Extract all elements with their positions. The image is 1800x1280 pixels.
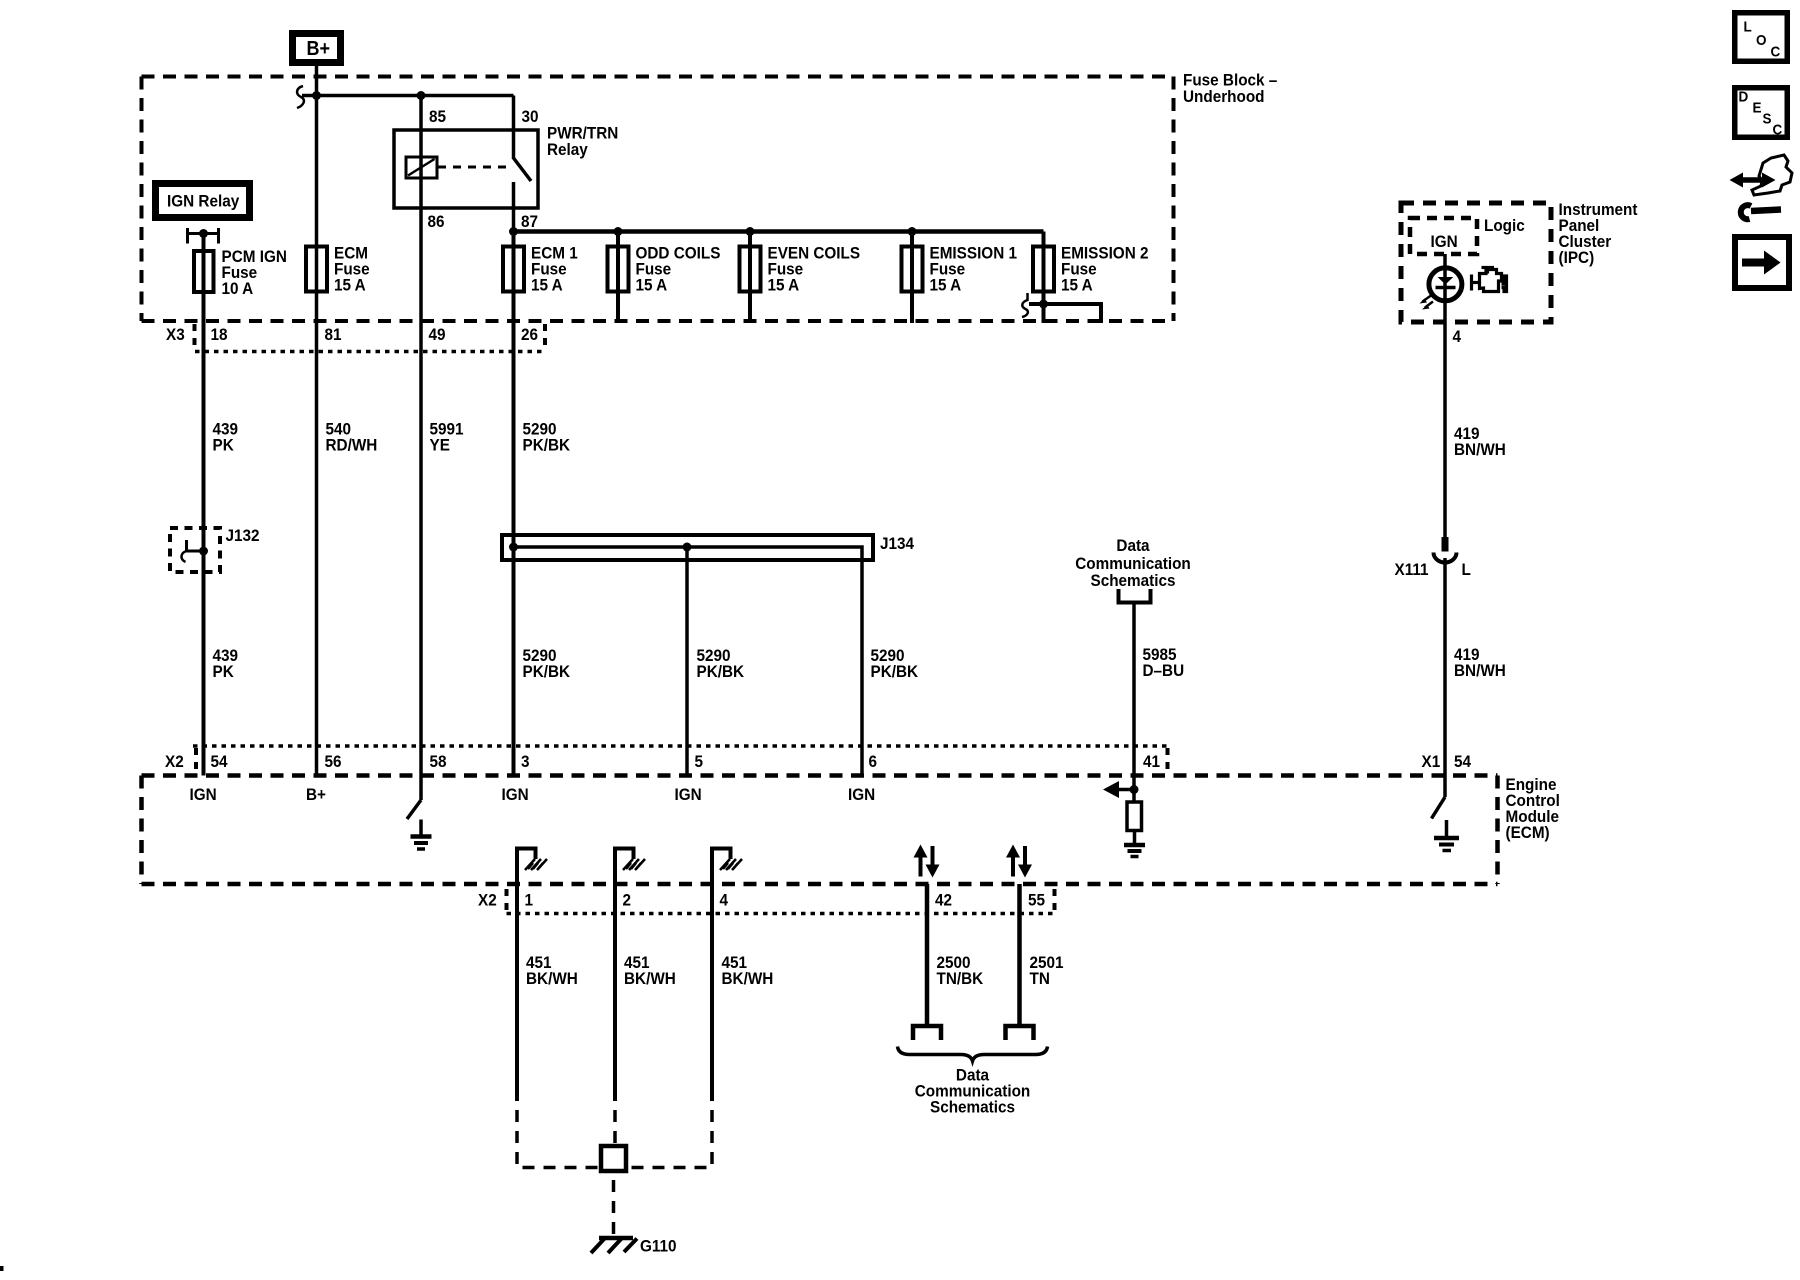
fuse F3 ECM 1 15A — [503, 247, 524, 292]
svg-text:54: 54 — [1454, 752, 1471, 771]
IGN Relay label box — [152, 180, 253, 221]
wire bus to relay pin 30 — [302, 94, 514, 98]
Instrument Panel Cluster dashed enclosure — [1401, 203, 1551, 322]
svg-text:55: 55 — [1028, 891, 1045, 910]
svg-text:42: 42 — [935, 891, 952, 910]
wire label 439 PK lower — [213, 646, 239, 681]
inline connector X111 — [1442, 537, 1449, 552]
wire label 5991 YE — [430, 420, 464, 455]
svg-text:1: 1 — [525, 891, 534, 910]
svg-text:X2: X2 — [478, 891, 497, 910]
wire 419 BN/WH run from IPC — [1443, 254, 1447, 537]
fuse F7 EMISSION 2 15A — [1033, 247, 1054, 292]
ground G110 — [599, 1236, 633, 1241]
svg-text:30: 30 — [522, 107, 539, 126]
wire J134 to ECM pin 5 — [685, 547, 689, 776]
connector X3 body dotted line — [195, 350, 545, 354]
splice junction block to G110 — [601, 1146, 626, 1171]
svg-text:6: 6 — [869, 752, 878, 771]
svg-text:YE: YE — [430, 436, 451, 455]
wire 2501 TN pin 55 — [1017, 884, 1022, 1026]
node J134 input — [509, 543, 518, 552]
node at IGN relay bracket — [199, 229, 208, 238]
off-page bracket pin 42 — [913, 1026, 941, 1040]
relay actuation dashed link — [438, 166, 507, 169]
node splice J132 — [199, 547, 208, 556]
wire label 451 BK/WH pin1 — [526, 953, 578, 988]
splice J132 clip symbol — [185, 540, 188, 551]
indicator LED D1 — [1429, 268, 1462, 301]
svg-text:BN/WH: BN/WH — [1454, 661, 1506, 680]
svg-text:J132: J132 — [226, 526, 260, 545]
svg-text:15 A: 15 A — [1061, 276, 1093, 295]
svg-text:B+: B+ — [306, 785, 326, 804]
svg-text:C: C — [1773, 122, 1783, 139]
wire label 5290 PK/BK pin6 — [871, 646, 919, 681]
splice J132 dashed box — [170, 528, 220, 572]
Engine Control Module dashed enclosure — [142, 776, 1498, 885]
page speck — [0, 1266, 4, 1271]
wire 5985 D-BU run — [1132, 605, 1136, 803]
wire ECM1 fuse run / 5290 PK/BK — [512, 232, 516, 776]
svg-text:(IPC): (IPC) — [1559, 248, 1595, 267]
ECM internal switch to ground for X1-54 — [1432, 797, 1446, 819]
svg-text:41: 41 — [1143, 752, 1160, 771]
wire label 2500 TN/BK — [937, 953, 984, 988]
relay switch pin 30 stub — [512, 96, 516, 160]
sidebar icon wrench — [1741, 205, 1751, 219]
svg-text:86: 86 — [428, 212, 445, 231]
wire 419 below X111 — [1443, 558, 1447, 797]
svg-text:X1: X1 — [1422, 752, 1441, 771]
svg-text:D–BU: D–BU — [1143, 661, 1185, 680]
svg-text:BK/WH: BK/WH — [624, 969, 676, 988]
label Data Communication Schematics upper — [1075, 536, 1190, 590]
svg-text:15 A: 15 A — [930, 276, 962, 295]
svg-text:TN/BK: TN/BK — [937, 969, 984, 988]
wire EMISSION 2 drop — [1042, 232, 1046, 324]
svg-text:4: 4 — [720, 891, 729, 910]
svg-text:2: 2 — [623, 891, 632, 910]
wire label 5290 PK/BK upper — [523, 420, 571, 455]
svg-text:B+: B+ — [307, 38, 331, 60]
node junction pin 85 tap — [417, 91, 426, 100]
svg-text:81: 81 — [325, 325, 342, 344]
svg-text:15 A: 15 A — [334, 276, 366, 295]
svg-text:IGN: IGN — [675, 785, 702, 804]
wire EVEN COILS stub — [748, 232, 752, 324]
sidebar icon LOC — [1732, 10, 1790, 64]
node J134 tap pin 5 — [683, 543, 692, 552]
wire label 540 RD/WH — [326, 420, 378, 455]
svg-text:C: C — [1771, 44, 1781, 61]
relay name label — [547, 124, 618, 159]
svg-text:58: 58 — [430, 752, 447, 771]
svg-text:3: 3 — [521, 752, 530, 771]
wire 451 BK/WH pin 2 — [613, 884, 617, 1101]
svg-text:X111: X111 — [1395, 560, 1429, 579]
svg-text:L: L — [1744, 19, 1753, 36]
relay coil — [406, 157, 437, 178]
svg-text:PK/BK: PK/BK — [871, 662, 919, 681]
connector X2 lower dotted body — [507, 912, 1056, 916]
label Engine Control Module (ECM) — [1506, 775, 1560, 842]
wire ODD COILS stub — [616, 232, 620, 324]
svg-text:PK: PK — [213, 662, 235, 681]
svg-text:Schematics: Schematics — [1091, 571, 1176, 590]
svg-text:BN/WH: BN/WH — [1454, 440, 1506, 459]
wire label 2501 TN — [1030, 953, 1064, 988]
wire label 419 BN/WH lower — [1454, 645, 1506, 680]
wire label 5985 D-BU — [1143, 645, 1185, 680]
ground for pin 41 — [1133, 831, 1137, 846]
ECM data arrows pin 42 — [919, 854, 923, 877]
connector X2 upper dotted body — [193, 744, 1168, 748]
node bus at ODD COILS — [614, 227, 623, 236]
IGN relay output bracket connector — [186, 232, 220, 235]
svg-text:26: 26 — [521, 325, 538, 344]
svg-text:Relay: Relay — [547, 140, 588, 159]
node bus at ECM1 — [509, 227, 518, 236]
svg-text:56: 56 — [325, 752, 342, 771]
fuse F5 EVEN COILS 15A — [740, 247, 761, 292]
svg-text:Data: Data — [1116, 536, 1150, 555]
connector X2 lower end ticks — [505, 889, 509, 910]
svg-text:87: 87 — [521, 212, 538, 231]
wire relay pin 85 / 5991 YE run — [419, 96, 423, 801]
connector X3 end ticks — [193, 324, 197, 352]
node EMISSION 2 output — [1039, 300, 1048, 309]
LED emission arrows — [1423, 296, 1432, 302]
brace grouping data lines — [898, 1047, 1048, 1062]
connector X2 lower pin labels — [478, 891, 1045, 910]
connector X3 labels row — [166, 325, 538, 344]
node bus at EVEN COILS — [746, 227, 755, 236]
svg-text:IGN: IGN — [502, 785, 529, 804]
connector X2 upper end ticks — [194, 748, 198, 770]
svg-text:Schematics: Schematics — [930, 1098, 1015, 1117]
MIL engine icon — [1472, 268, 1507, 292]
fuse F2 ECM 15A — [306, 247, 327, 292]
relay switch pin 87 stub — [512, 182, 516, 232]
wire label 439 PK upper — [213, 420, 239, 455]
svg-text:IGN Relay: IGN Relay — [167, 192, 239, 211]
sidebar icon route arrows — [1752, 155, 1792, 195]
wire label 451 BK/WH pin2 — [624, 953, 676, 988]
relay switch blade — [514, 158, 532, 181]
svg-text:BK/WH: BK/WH — [722, 969, 774, 988]
label Instrument Panel Cluster (IPC) — [1559, 200, 1639, 267]
svg-text:E: E — [1753, 100, 1762, 117]
svg-text:15 A: 15 A — [768, 276, 800, 295]
svg-text:18: 18 — [211, 325, 228, 344]
svg-text:5: 5 — [695, 752, 704, 771]
wire label 5290 PK/BK pin5 — [697, 646, 745, 681]
svg-text:RD/WH: RD/WH — [326, 436, 378, 455]
ECM data arrows pin 55 — [1011, 854, 1015, 877]
svg-text:IGN: IGN — [848, 785, 875, 804]
sidebar icon DESC — [1732, 85, 1790, 140]
svg-text:(ECM): (ECM) — [1506, 823, 1550, 842]
off-page bracket pin 55 — [1006, 1026, 1034, 1040]
svg-text:15 A: 15 A — [531, 276, 563, 295]
splice pack J134 bus bar — [502, 535, 873, 560]
Fuse Block - Underhood dashed enclosure — [142, 77, 1174, 322]
svg-text:IGN: IGN — [1431, 232, 1458, 251]
svg-text:D: D — [1739, 89, 1749, 106]
svg-text:15 A: 15 A — [636, 276, 668, 295]
fuse F1 PCM IGN 10A — [194, 251, 214, 292]
svg-text:BK/WH: BK/WH — [526, 969, 578, 988]
svg-text:10 A: 10 A — [222, 279, 254, 298]
svg-text:L: L — [1462, 560, 1471, 579]
wire 451 BK/WH pin 1 — [515, 884, 519, 1101]
wire 2500 TN/BK pin 42 — [925, 884, 930, 1026]
wire label 451 BK/WH pin4 — [722, 953, 774, 988]
svg-text:TN: TN — [1030, 969, 1050, 988]
svg-text:49: 49 — [429, 325, 446, 344]
node ECM pin 41 internal — [1130, 785, 1139, 794]
ground for X1-54 — [1445, 820, 1449, 838]
connector X2 upper pin labels — [165, 752, 1471, 771]
relay U1 PWR/TRN box — [394, 130, 538, 208]
ECM internal switch to ground for pin 58 — [407, 800, 421, 819]
battery feed label B+ — [289, 30, 344, 66]
svg-text:PK/BK: PK/BK — [523, 662, 571, 681]
svg-text:X3: X3 — [166, 325, 185, 344]
ECM case ground pin 1 — [517, 849, 536, 885]
ECM case ground pin 2 — [615, 849, 634, 885]
wire label 419 BN/WH upper — [1454, 424, 1506, 459]
svg-text:4: 4 — [1453, 327, 1462, 346]
svg-text:S: S — [1763, 111, 1772, 128]
clip symbol at bus entry — [297, 86, 304, 108]
svg-text:54: 54 — [211, 752, 228, 771]
wire label 5290 PK/BK pin3 — [523, 646, 571, 681]
off-page bracket for 5985 — [1119, 589, 1151, 603]
ECM internal terminating resistor — [1127, 802, 1142, 831]
wire EMISSION 1 stub — [910, 232, 914, 324]
wire EMISSION 2 side branch — [1029, 304, 1101, 323]
wire to G110 ground — [612, 1171, 616, 1236]
sidebar icon next arrow — [1732, 234, 1792, 291]
clip symbol at EMISSION 2 branch — [1022, 293, 1028, 317]
ECM internal net names — [190, 785, 876, 804]
fuse F6 EMISSION 1 15A — [902, 247, 923, 292]
svg-text:PK/BK: PK/BK — [697, 662, 745, 681]
svg-text:PK/BK: PK/BK — [523, 436, 571, 455]
svg-text:Logic: Logic — [1484, 216, 1525, 235]
ECM case ground pin 4 — [712, 849, 731, 885]
node bus at EMISSION 1 — [908, 227, 917, 236]
wire 451 BK/WH pin 4 — [710, 884, 714, 1101]
wire bus from pin 87 feeding fuses — [514, 229, 1044, 234]
svg-text:J134: J134 — [880, 534, 914, 553]
svg-text:X2: X2 — [165, 752, 184, 771]
label Fuse Block - Underhood — [1183, 71, 1277, 106]
label Data Communication Schematics lower — [915, 1066, 1030, 1117]
wire PCM IGN feed / 439 PK run — [202, 234, 206, 776]
node junction B+ bus — [312, 91, 321, 100]
svg-text:G110: G110 — [640, 1237, 677, 1256]
wire B+ vertical feed (540 RD/WH run) — [315, 66, 319, 776]
svg-text:PK: PK — [213, 436, 235, 455]
svg-text:85: 85 — [429, 107, 446, 126]
ECM internal arrow to data bus — [1114, 788, 1134, 792]
svg-text:O: O — [1756, 32, 1766, 49]
svg-text:Underhood: Underhood — [1183, 87, 1265, 106]
fuse F4 ODD COILS 15A — [608, 247, 629, 292]
svg-text:IGN: IGN — [190, 785, 217, 804]
ground for pin 58 — [419, 820, 423, 837]
IGN net dashed box in IPC — [1410, 218, 1477, 254]
